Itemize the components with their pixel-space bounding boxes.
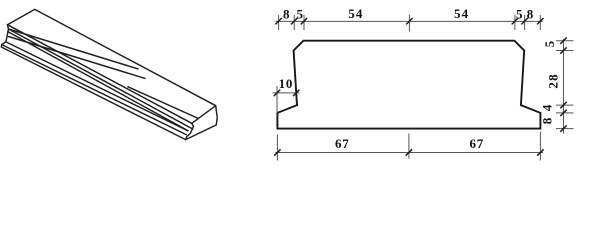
chain extension: section bottom — [556, 128, 574, 130]
chain tick 1 — [560, 38, 566, 44]
extension stub: right flange edge — [539, 15, 541, 30]
extension stub: left chamfer base — [293, 15, 295, 30]
mid long edge — [8, 32, 188, 131]
bottom extension: left corner — [276, 135, 278, 161]
bottom tick right — [537, 149, 543, 155]
bottom dim line — [276, 152, 544, 154]
chain tick 5 — [560, 125, 566, 131]
top tick 6 — [521, 18, 527, 24]
seat break line long — [9, 37, 146, 79]
top tick 5 — [512, 18, 518, 24]
left 10 extension — [276, 86, 278, 113]
chain extension: section top — [556, 40, 574, 42]
chain tick 2 — [560, 47, 566, 53]
bottom extension: right corner — [539, 132, 541, 161]
extension stub: left flange edge — [278, 15, 280, 30]
svg-text:5: 5 — [542, 40, 557, 47]
svg-text:54: 54 — [454, 6, 469, 21]
svg-text:4: 4 — [540, 104, 555, 111]
top tick 4 — [406, 18, 412, 24]
dimension lines (thin) — [273, 15, 574, 161]
top tick 2 — [291, 18, 297, 24]
far end profile steps — [186, 123, 194, 139]
svg-text:28: 28 — [546, 73, 561, 88]
top dim line — [276, 20, 544, 22]
far end width edge — [192, 106, 216, 124]
svg-text:54: 54 — [348, 6, 363, 21]
beam silhouette — [1, 9, 217, 139]
bottom tick left — [274, 149, 280, 155]
chain tick 4 — [560, 110, 566, 116]
top-front long edge — [7, 25, 191, 124]
bottom extension: middle — [408, 134, 410, 159]
seat break line short — [9, 29, 139, 69]
top tick 3 — [301, 18, 307, 24]
section outline — [277, 41, 540, 129]
svg-text:10: 10 — [279, 76, 294, 91]
dimension texts — [279, 6, 561, 151]
chain extension: chamfer base level — [556, 50, 574, 52]
tick slashes — [274, 18, 567, 156]
top tick 1 — [275, 18, 281, 24]
extension stub: right top corner — [514, 15, 516, 30]
chain extension: web bottom level — [556, 104, 574, 106]
extension stub: left top corner — [303, 15, 305, 30]
seat wedge line right — [128, 87, 198, 119]
extension stub: right chamfer base — [524, 15, 526, 30]
svg-text:8: 8 — [539, 117, 554, 124]
chain extension: flange top level — [556, 112, 574, 114]
svg-text:8: 8 — [283, 7, 290, 22]
right chain line — [563, 39, 565, 134]
svg-text:5: 5 — [516, 7, 523, 22]
chamfer bottom long edge — [9, 29, 193, 129]
chain tick 3 — [560, 102, 566, 108]
top tick 7 — [537, 18, 543, 24]
bottom tick middle — [406, 149, 412, 155]
10-dim tick right — [293, 90, 299, 96]
10-dim tick left — [274, 90, 280, 96]
extension stub: centerline — [408, 15, 410, 32]
left 10-dim line — [273, 92, 300, 94]
taper bottom long edge — [2, 45, 186, 135]
svg-text:67: 67 — [335, 136, 350, 151]
svg-text:8: 8 — [527, 7, 534, 22]
web bottom long edge — [6, 42, 188, 131]
svg-text:5: 5 — [296, 7, 303, 22]
svg-text:67: 67 — [469, 136, 484, 151]
